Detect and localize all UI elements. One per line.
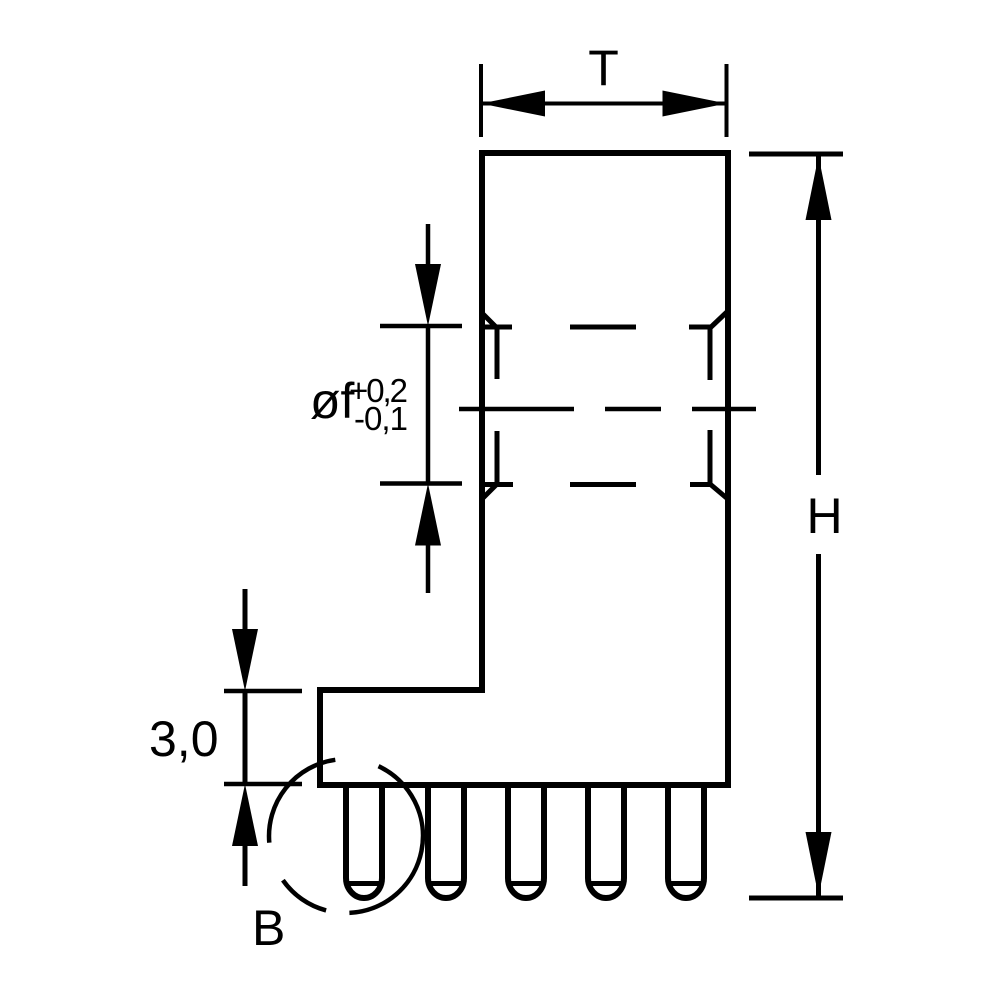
dimension 3,0: bottom arrowhead — [232, 784, 258, 846]
body outline (L-shaped housing) — [320, 153, 728, 785]
svg-text:T: T — [588, 40, 619, 96]
chamfer diagonal top-right — [710, 310, 729, 328]
dimension T: line — [481, 102, 727, 106]
svg-text:3,0: 3,0 — [149, 711, 219, 767]
dimension H: line (with gap for label) — [816, 156, 821, 475]
pin 5 — [668, 785, 704, 898]
dimension øf: bottom arrow tail — [426, 540, 431, 593]
hidden hole top edge (dashed) — [482, 325, 711, 330]
dimension T: extension ticks — [479, 64, 483, 137]
hidden chamfer vertical right (dashed) — [708, 327, 713, 485]
hole centerline — [459, 407, 756, 412]
chamfer diagonal top-left — [481, 312, 497, 328]
detail circle B (broken arcs) — [269, 760, 423, 913]
dimension øf: top arrow tail — [426, 224, 431, 275]
dimension 3,0: line between ticks — [243, 691, 248, 784]
dimension H: top arrowhead — [806, 156, 832, 220]
dimension H: bottom arrowhead — [806, 832, 832, 896]
pin 3 — [508, 785, 544, 898]
svg-text:H: H — [806, 488, 842, 544]
dimension H: extension lines — [749, 152, 843, 157]
pin 4 — [588, 785, 624, 898]
hidden hole bottom edge (dashed) — [482, 482, 711, 487]
dimension 3,0: top arrow tail — [243, 589, 248, 640]
dimension øf: top arrowhead — [415, 264, 441, 326]
svg-text:B: B — [252, 900, 285, 956]
svg-text:øf: øf — [310, 373, 355, 429]
dimension øf: extension ticks — [380, 324, 462, 329]
chamfer diagonal bottom-right — [710, 484, 729, 500]
pin 2 — [428, 785, 464, 898]
dimension 3,0: extension ticks — [224, 689, 302, 694]
dimension øf: line between ticks — [426, 326, 431, 484]
chamfer diagonal bottom-left — [481, 484, 497, 500]
pin 1 — [346, 785, 382, 898]
hidden chamfer vertical left (dashed) — [495, 327, 500, 485]
dimension T: right arrowhead — [663, 91, 727, 117]
dimension T: left arrowhead — [481, 91, 545, 117]
dimension 3,0: bottom arrow tail — [243, 840, 248, 886]
dimension øf: bottom arrowhead — [415, 484, 441, 546]
dimension 3,0: top arrowhead — [232, 629, 258, 691]
svg-text:-0,1: -0,1 — [354, 400, 408, 437]
